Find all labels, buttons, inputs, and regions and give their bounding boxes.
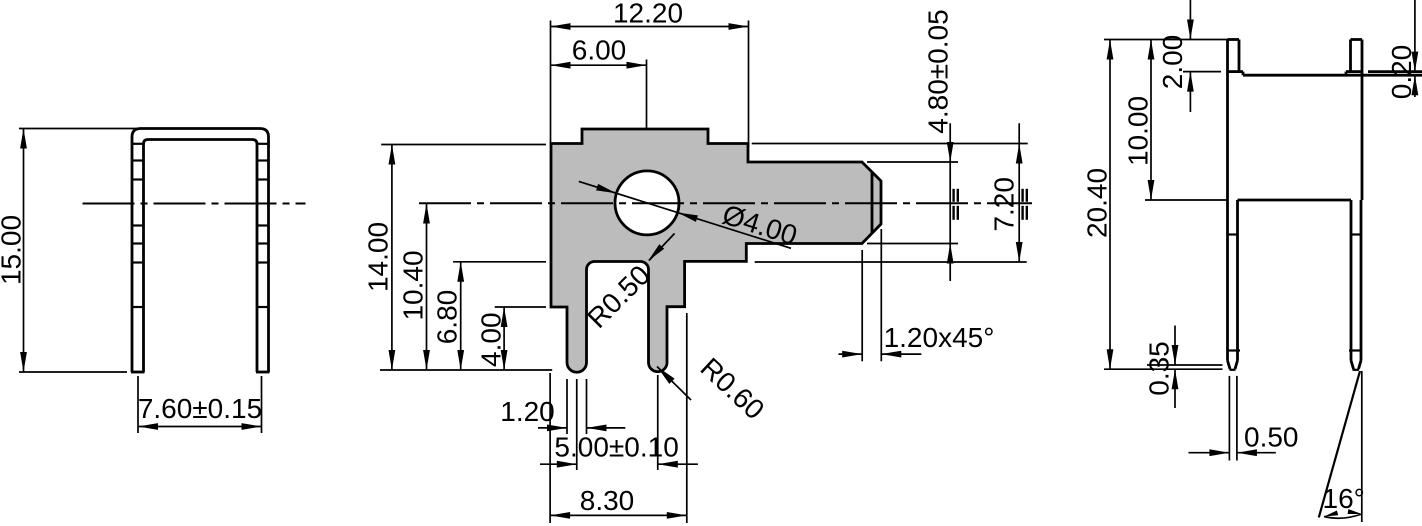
svg-text:10.40: 10.40 [398, 250, 429, 320]
svg-text:7.60±0.15: 7.60±0.15 [138, 393, 262, 424]
right view strip tick marks [1228, 235, 1362, 351]
svg-text:6.00: 6.00 [572, 35, 627, 66]
dimension 1.20 line and arrows [538, 425, 625, 432]
right view bend rung [1238, 199, 1352, 202]
svg-text:16°: 16° [1323, 483, 1365, 514]
dimension 15.00 text [0, 215, 27, 285]
right view right outer edge [1361, 75, 1362, 360]
svg-text:5.00±0.10: 5.00±0.10 [554, 432, 678, 463]
dimension 5.00 extension lines [577, 375, 658, 470]
dimension 7.20 line and arrows [1016, 123, 1023, 262]
dimension 10.00 text [1123, 96, 1154, 166]
svg-text:2.00: 2.00 [1157, 35, 1188, 90]
dimension 6.00 text [572, 35, 627, 66]
dimension 12.20 extension lines [551, 21, 749, 148]
dimension 12.20 text [613, 0, 683, 28]
symmetry marks at 4.80 dimension [954, 189, 958, 220]
left view inner contour [144, 140, 258, 373]
svg-text:1.20: 1.20 [500, 396, 555, 427]
dimension 4.00 text [475, 312, 506, 367]
dimension 8.30 line and arrows [550, 512, 687, 519]
svg-text:0.35: 0.35 [1144, 341, 1175, 396]
dimension 5.00 line and arrows [540, 461, 698, 468]
svg-text:10.00: 10.00 [1123, 96, 1154, 166]
left view outer contour (U-bracket) [131, 129, 270, 373]
radius leader R0.50 [648, 234, 675, 262]
dimension 14.00 text [362, 222, 393, 292]
right view shoulder extension line [1183, 71, 1221, 73]
dimension 10.40 line and arrows [423, 204, 430, 371]
right view right pin tab (top) [1346, 40, 1362, 76]
dimension 20.40 text [1082, 168, 1113, 238]
diameter leader Ø4.00 [579, 181, 791, 248]
svg-text:4.80±0.05: 4.80±0.05 [923, 9, 954, 133]
left-side extension lines of middle view [380, 145, 552, 371]
right view left outer edge [1226, 40, 1229, 361]
right view right strip tapered tip [1351, 361, 1361, 370]
dimension 16 degree text [1323, 483, 1365, 514]
dimension 6.80 text [432, 290, 463, 345]
dimension 6.80 line and arrows [457, 262, 464, 370]
right view right strip inner edge [1350, 200, 1353, 361]
left view centerline [83, 203, 306, 205]
right view 0.20 step edge [1368, 70, 1422, 73]
dimension 2.00 text [1157, 35, 1188, 90]
dimension 10.40 text [398, 250, 429, 320]
right view left strip inner edge [1236, 200, 1239, 361]
svg-text:15.00: 15.00 [0, 215, 27, 285]
symmetry marks at 7.20 dimension [1023, 189, 1027, 220]
dimension 5.00 text [554, 432, 678, 463]
dimension 4.80 line and arrows [947, 123, 954, 281]
dimension 8.30 text [580, 485, 635, 516]
16 degree dimension arc [1324, 509, 1362, 518]
svg-text:R0.60: R0.60 [695, 352, 771, 426]
dimension 1.20 text [500, 396, 555, 427]
dimension 0.20 line and arrows [1412, 0, 1419, 97]
middle view centerline [419, 202, 1032, 204]
dimension 10.00 line and arrows [1148, 40, 1155, 201]
dimension 0.20 text [1386, 45, 1417, 100]
svg-text:6.80: 6.80 [432, 290, 463, 345]
svg-text:0.20: 0.20 [1386, 45, 1417, 100]
svg-text:12.20: 12.20 [613, 0, 683, 28]
dimension 0.50 extension lines [1229, 376, 1237, 461]
dimension 14.00 line and arrows [389, 145, 396, 371]
dimension 7.60 line and arrows [138, 423, 262, 430]
svg-text:7.20: 7.20 [989, 177, 1020, 232]
radius R0.60 text [695, 352, 771, 426]
right view 0.35 upper reference line [1147, 364, 1223, 366]
right view left pin tab (top) [1228, 40, 1244, 76]
middle view part outline (terminal body, gray filled) [551, 129, 881, 372]
left view bend tick marks on legs [132, 144, 270, 307]
svg-text:8.30: 8.30 [580, 485, 635, 516]
diameter Ø4.00 text [719, 199, 801, 252]
dimension 6.00 line and arrows [551, 62, 647, 69]
right view body top edge [1243, 74, 1422, 77]
16 degree bent pin line [1319, 371, 1360, 517]
dimension 1.20 extension lines [567, 379, 587, 434]
16 degree reference vertical line [1361, 371, 1363, 522]
svg-text:0.50: 0.50 [1244, 422, 1299, 453]
dimension 20.40 line and arrows [1107, 40, 1114, 370]
radius leader R0.60 [657, 367, 691, 401]
tab chamfer fold line [871, 172, 874, 233]
svg-text:20.40: 20.40 [1082, 168, 1113, 238]
dimension 4.00 line and arrows [501, 307, 508, 370]
right view 10.00 extension line [1145, 199, 1228, 201]
dimension 1.20x45 text [884, 322, 995, 353]
dimension 15.00 extension lines [19, 129, 139, 373]
dimension 0.50 line and arrows [1189, 449, 1276, 456]
svg-text:R0.50: R0.50 [581, 259, 656, 334]
dimension 7.60 extension lines [138, 376, 262, 433]
svg-text:1.20x45°: 1.20x45° [884, 322, 995, 353]
dimension 8.30 extension lines [550, 313, 687, 523]
dimension 15.00 line and arrows [20, 129, 27, 373]
dimension 7.20 text [989, 177, 1020, 232]
radius R0.50 text [581, 259, 656, 334]
right view bottom extension line [1104, 368, 1223, 370]
right view left strip tapered tip [1228, 361, 1238, 370]
tab edge extension lines (right of middle view) [752, 144, 1028, 263]
dimension 0.50 text [1244, 422, 1299, 453]
svg-text:14.00: 14.00 [362, 222, 393, 292]
dimension 2.00 line and arrows [1187, 0, 1194, 112]
right view top extension line [1104, 39, 1228, 41]
dimension 7.60 text [138, 393, 262, 424]
dimension 0.35 text [1144, 341, 1175, 396]
dimension 4.80 text [923, 9, 954, 133]
hole Ø4.00 (circle) [615, 171, 679, 235]
dimension 0.35 line and arrows [1172, 326, 1179, 409]
svg-text:4.00: 4.00 [475, 312, 506, 367]
dimension 1.20x45 extension lines [862, 229, 881, 361]
dimension 1.20x45 line and arrows [839, 351, 922, 358]
dimension 12.20 line and arrows [551, 23, 749, 30]
